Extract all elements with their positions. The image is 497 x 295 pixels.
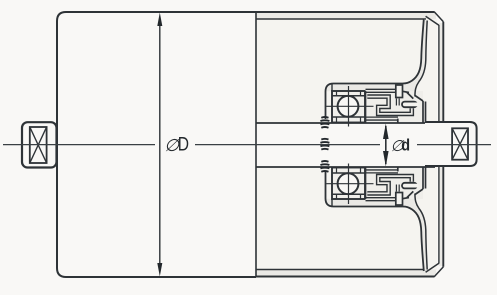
right bearing block — [425, 121, 477, 167]
drum body outline left view — [57, 12, 256, 277]
labyrinth hairpin slot — [405, 101, 414, 108]
ball bearing — [332, 91, 365, 123]
shell inner bottom line — [256, 269, 426, 271]
hub housing top wall fill — [326, 84, 403, 124]
divider line between view and section — [255, 12, 257, 277]
labyrinth seal block fill — [366, 91, 424, 123]
rim chamfer top — [426, 12, 444, 25]
end disc inner line — [415, 21, 427, 97]
shell outer bottom line — [256, 276, 434, 278]
phid dimension arrow — [383, 124, 389, 167]
section cavity fill — [256, 19, 437, 270]
shaft top line — [256, 122, 435, 124]
end disc outer line + hub outline — [326, 19, 424, 119]
break squiggle bottom — [320, 161, 329, 172]
centerline — [3, 144, 491, 146]
shaft white strip — [256, 123, 434, 167]
svg-text:d: d — [401, 136, 410, 154]
shaft bottom line — [256, 166, 435, 168]
shell inner top line — [256, 18, 426, 20]
left bearing block — [22, 122, 57, 167]
bottom half assembly (mirror) — [326, 164, 428, 272]
shell band top — [256, 12, 436, 19]
end disc thickness fill — [403, 19, 428, 96]
shell band bottom — [256, 270, 436, 277]
top half assembly: disc, hub, bearing, labyrinth seal — [326, 19, 428, 127]
seal tab — [396, 85, 403, 98]
break squiggle top — [320, 117, 329, 128]
phiD dimension line — [157, 13, 162, 277]
labyrinth seal strokes — [366, 91, 412, 119]
shell outer top line — [256, 11, 434, 13]
rim band right — [439, 23, 443, 266]
rim chamfer bottom — [426, 263, 444, 276]
break squiggle middle — [320, 139, 329, 150]
rim vertical lines — [439, 22, 443, 267]
svg-text:D: D — [178, 133, 189, 155]
